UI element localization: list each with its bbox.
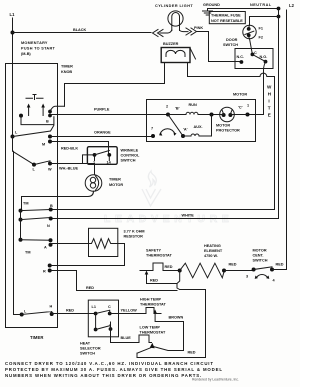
junction L1-black [11,31,15,35]
bottom note text [5,361,223,378]
timer contact L2nd / W [32,163,36,167]
svg-text:F2: F2 [259,36,263,40]
svg-text:C: C [108,305,111,309]
svg-text:RED: RED [188,351,196,355]
svg-text:KNOB: KNOB [61,70,72,74]
svg-text:MOMENTARY: MOMENTARY [21,41,48,45]
svg-text:1: 1 [109,324,111,328]
connector arrows left of lamp [153,30,164,37]
svg-text:SAFETY: SAFETY [146,249,161,253]
wire red timer H to heat selector [52,313,96,315]
wire R top to resistor [50,265,125,267]
svg-text:PUSH TO START: PUSH TO START [21,47,56,51]
centrifugal blade [168,115,183,137]
svg-text:RED: RED [150,279,158,283]
svg-text:RED: RED [276,263,284,267]
svg-text:MOTOR: MOTOR [109,183,123,187]
svg-text:N: N [47,224,50,228]
wire fuse to neutral [250,17,279,26]
svg-text:LOW TEMP: LOW TEMP [140,326,161,330]
wire cent sw 4 to L2 [272,269,287,271]
resistor box [89,228,118,256]
svg-text:L1: L1 [92,305,96,309]
svg-text:3.77 K OHM: 3.77 K OHM [124,230,145,234]
svg-text:W: W [267,85,272,90]
svg-text:NEUTRAL: NEUTRAL [250,3,272,7]
wire BLACK [13,32,152,34]
watermark [104,171,233,225]
svg-text:7: 7 [151,127,153,131]
svg-text:B: B [46,120,49,124]
wire L1 drop [12,18,14,137]
timer contact M pair [48,135,52,139]
svg-text:SWITCH: SWITCH [121,159,136,163]
wire door C blade [252,54,265,61]
svg-text:THERMOSTAT: THERMOSTAT [140,331,166,335]
low temp stat arm [150,343,155,348]
svg-text:MOTOR: MOTOR [253,249,267,253]
svg-text:N.C.: N.C. [237,55,245,59]
wire purple [51,114,168,116]
wire yellow [110,313,144,315]
svg-text:DOOR: DOOR [226,38,238,42]
svg-text:BLACK: BLACK [73,28,87,32]
wire push contacts [21,116,54,125]
heating element junction [178,269,182,273]
svg-text:A: A [44,246,47,250]
svg-text:ORANGE: ORANGE [94,131,111,135]
svg-text:W: W [48,168,52,172]
svg-text:THERMOSTAT: THERMOSTAT [140,303,166,307]
svg-text:WRINKLE: WRINKLE [121,149,139,153]
aux winding [183,114,212,136]
svg-text:L1: L1 [10,12,16,17]
svg-text:(M-B): (M-B) [21,52,31,56]
svg-text:TM: TM [25,251,30,255]
svg-text:'C': 'C' [238,106,243,110]
svg-text:GROUND: GROUND [203,3,220,7]
thermal fuse label box [209,12,245,24]
svg-text:L: L [33,168,36,172]
wrinkle control switch [87,147,117,165]
motor protector [220,107,235,122]
svg-text:HIGH TEMP: HIGH TEMP [140,298,162,302]
svg-text:H: H [268,92,272,97]
svg-text:CYLINDER LIGHT: CYLINDER LIGHT [155,4,193,8]
svg-text:H: H [50,305,53,309]
wire to motor cent sw [224,270,254,272]
node WHITE vertical label [267,85,272,118]
svg-text:L: L [15,131,18,135]
wire L2 vertical [286,10,288,270]
wire fuse to door switch [250,39,253,55]
svg-text:PURPLE: PURPLE [94,108,110,112]
svg-text:BUZZER: BUZZER [163,42,179,46]
svg-text:Rendered by LeadVenture, Inc.: Rendered by LeadVenture, Inc. [192,378,239,382]
connector arrows right of lamp [186,28,197,35]
thermal fuse F1 F2 [243,25,256,38]
svg-text:I: I [268,99,269,104]
heating element right junction [222,269,226,273]
svg-text:PROTECTED BY MAXIMUM 30 A. FUS: PROTECTED BY MAXIMUM 30 A. FUSES. ALWAYS… [5,367,223,372]
svg-text:F1: F1 [259,27,263,31]
svg-text:L: L [24,310,27,314]
svg-text:NUMBERS WHEN WRITING ABOUT THI: NUMBERS WHEN WRITING ABOUT THIS DRYER OR… [5,373,202,378]
svg-text:M: M [42,143,45,147]
svg-text:YELLOW: YELLOW [121,309,138,313]
svg-text:HEAT: HEAT [80,342,91,346]
rotor swing arc [160,129,175,134]
svg-text:SWITCH: SWITCH [80,352,95,356]
svg-text:BROWN: BROWN [169,316,184,320]
buzzer coil [166,50,185,56]
svg-text:T: T [268,106,271,111]
wire neutral vertical [278,9,280,219]
wire white from N.O. down to motor pin 1 [248,62,266,115]
run winding [168,112,212,114]
svg-text:R: R [43,270,46,274]
heat selector switch [88,300,118,337]
wire orange [50,136,153,138]
svg-text:2: 2 [166,105,168,109]
svg-text:RESISTOR: RESISTOR [124,235,144,239]
wire left common [13,137,35,315]
heating element [180,263,225,278]
motor box [147,100,256,142]
svg-text:SELECTOR: SELECTOR [80,347,101,351]
wire red-blk [50,142,109,154]
svg-text:TIMER: TIMER [109,178,121,182]
timer box [6,64,58,328]
svg-text:ELEMENT: ELEMENT [204,249,223,253]
wire blue [111,329,140,343]
svg-text:THERMOSTAT: THERMOSTAT [146,254,172,258]
svg-text:SWITCH: SWITCH [253,259,268,263]
svg-text:MOTOR: MOTOR [216,124,230,128]
svg-text:TIMER: TIMER [30,335,44,340]
svg-text:TM: TM [23,202,28,206]
svg-text:RED: RED [86,286,94,290]
svg-text:PINK: PINK [194,26,203,30]
wire buzzer left lead [65,63,165,107]
svg-text:SWITCH: SWITCH [223,43,238,47]
svg-text:THERMAL FUSE: THERMAL FUSE [211,14,241,18]
wire pin1 to white [240,114,247,116]
svg-text:'A': 'A' [183,128,188,132]
junction neutral [277,7,281,11]
timer motor [94,164,96,175]
svg-text:B: B [50,204,53,208]
svg-text:L2: L2 [289,3,295,8]
timer L-H contacts [20,313,24,317]
svg-text:RED: RED [229,263,237,267]
svg-text:1: 1 [247,104,249,108]
svg-text:RED: RED [66,309,74,313]
svg-text:4: 4 [273,279,276,283]
svg-text:CONNECT DRYER TO 120/240 V.A.C: CONNECT DRYER TO 120/240 V.A.C.,60 HZ. I… [5,361,214,366]
svg-text:CONTROL: CONTROL [121,154,140,158]
svg-text:3: 3 [246,275,248,279]
svg-text:RED-BLK: RED-BLK [61,147,78,151]
svg-text:'B': 'B' [175,107,180,111]
svg-text:WHITE: WHITE [182,214,195,218]
svg-text:AUX.: AUX. [194,125,203,129]
wire timer motor return [22,191,94,210]
svg-text:HEATING: HEATING [204,244,221,248]
svg-text:C: C [254,51,257,55]
buzzer arm [190,48,196,59]
svg-text:E: E [268,113,271,118]
svg-text:4750 W.: 4750 W. [204,254,218,258]
svg-text:TIMER: TIMER [61,65,73,69]
wire neutral run to timer N [51,218,279,220]
svg-text:PROTECTOR: PROTECTOR [216,129,240,133]
svg-text:RUN: RUN [189,103,197,107]
svg-text:RED: RED [165,265,173,269]
blades TM [21,210,51,241]
svg-text:WH.-BLUE: WH.-BLUE [59,167,78,171]
push to start switch [26,95,43,100]
wire wh-blue [50,155,95,164]
wire buzzer right lead with hop over white [51,63,275,210]
svg-text:CENT.: CENT. [253,254,264,258]
svg-text:BLUE: BLUE [121,336,132,340]
svg-text:MOTOR: MOTOR [233,93,247,97]
wire R bottom red [50,271,177,291]
svg-text:NOT RESETABLE: NOT RESETABLE [211,19,243,23]
safety stat arm [147,274,178,284]
